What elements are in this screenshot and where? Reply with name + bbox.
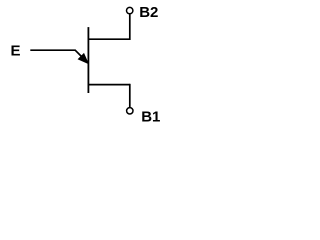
wire B1 vertical [129,84,131,107]
emitter arrowhead [79,54,88,63]
wire B1 horizontal [88,84,130,86]
wire E diagonal [75,50,83,58]
transistor Q1 (UJT) base bar [87,27,89,93]
wire B2 vertical [129,14,131,40]
svg-text:B1: B1 [141,109,160,126]
wire E horizontal [30,49,75,51]
svg-text:E: E [11,42,21,59]
svg-text:B2: B2 [139,4,158,21]
terminal B2 (open circle) [127,7,133,13]
terminal B1 (open circle) [127,108,133,114]
wire B2 horizontal [88,38,130,40]
